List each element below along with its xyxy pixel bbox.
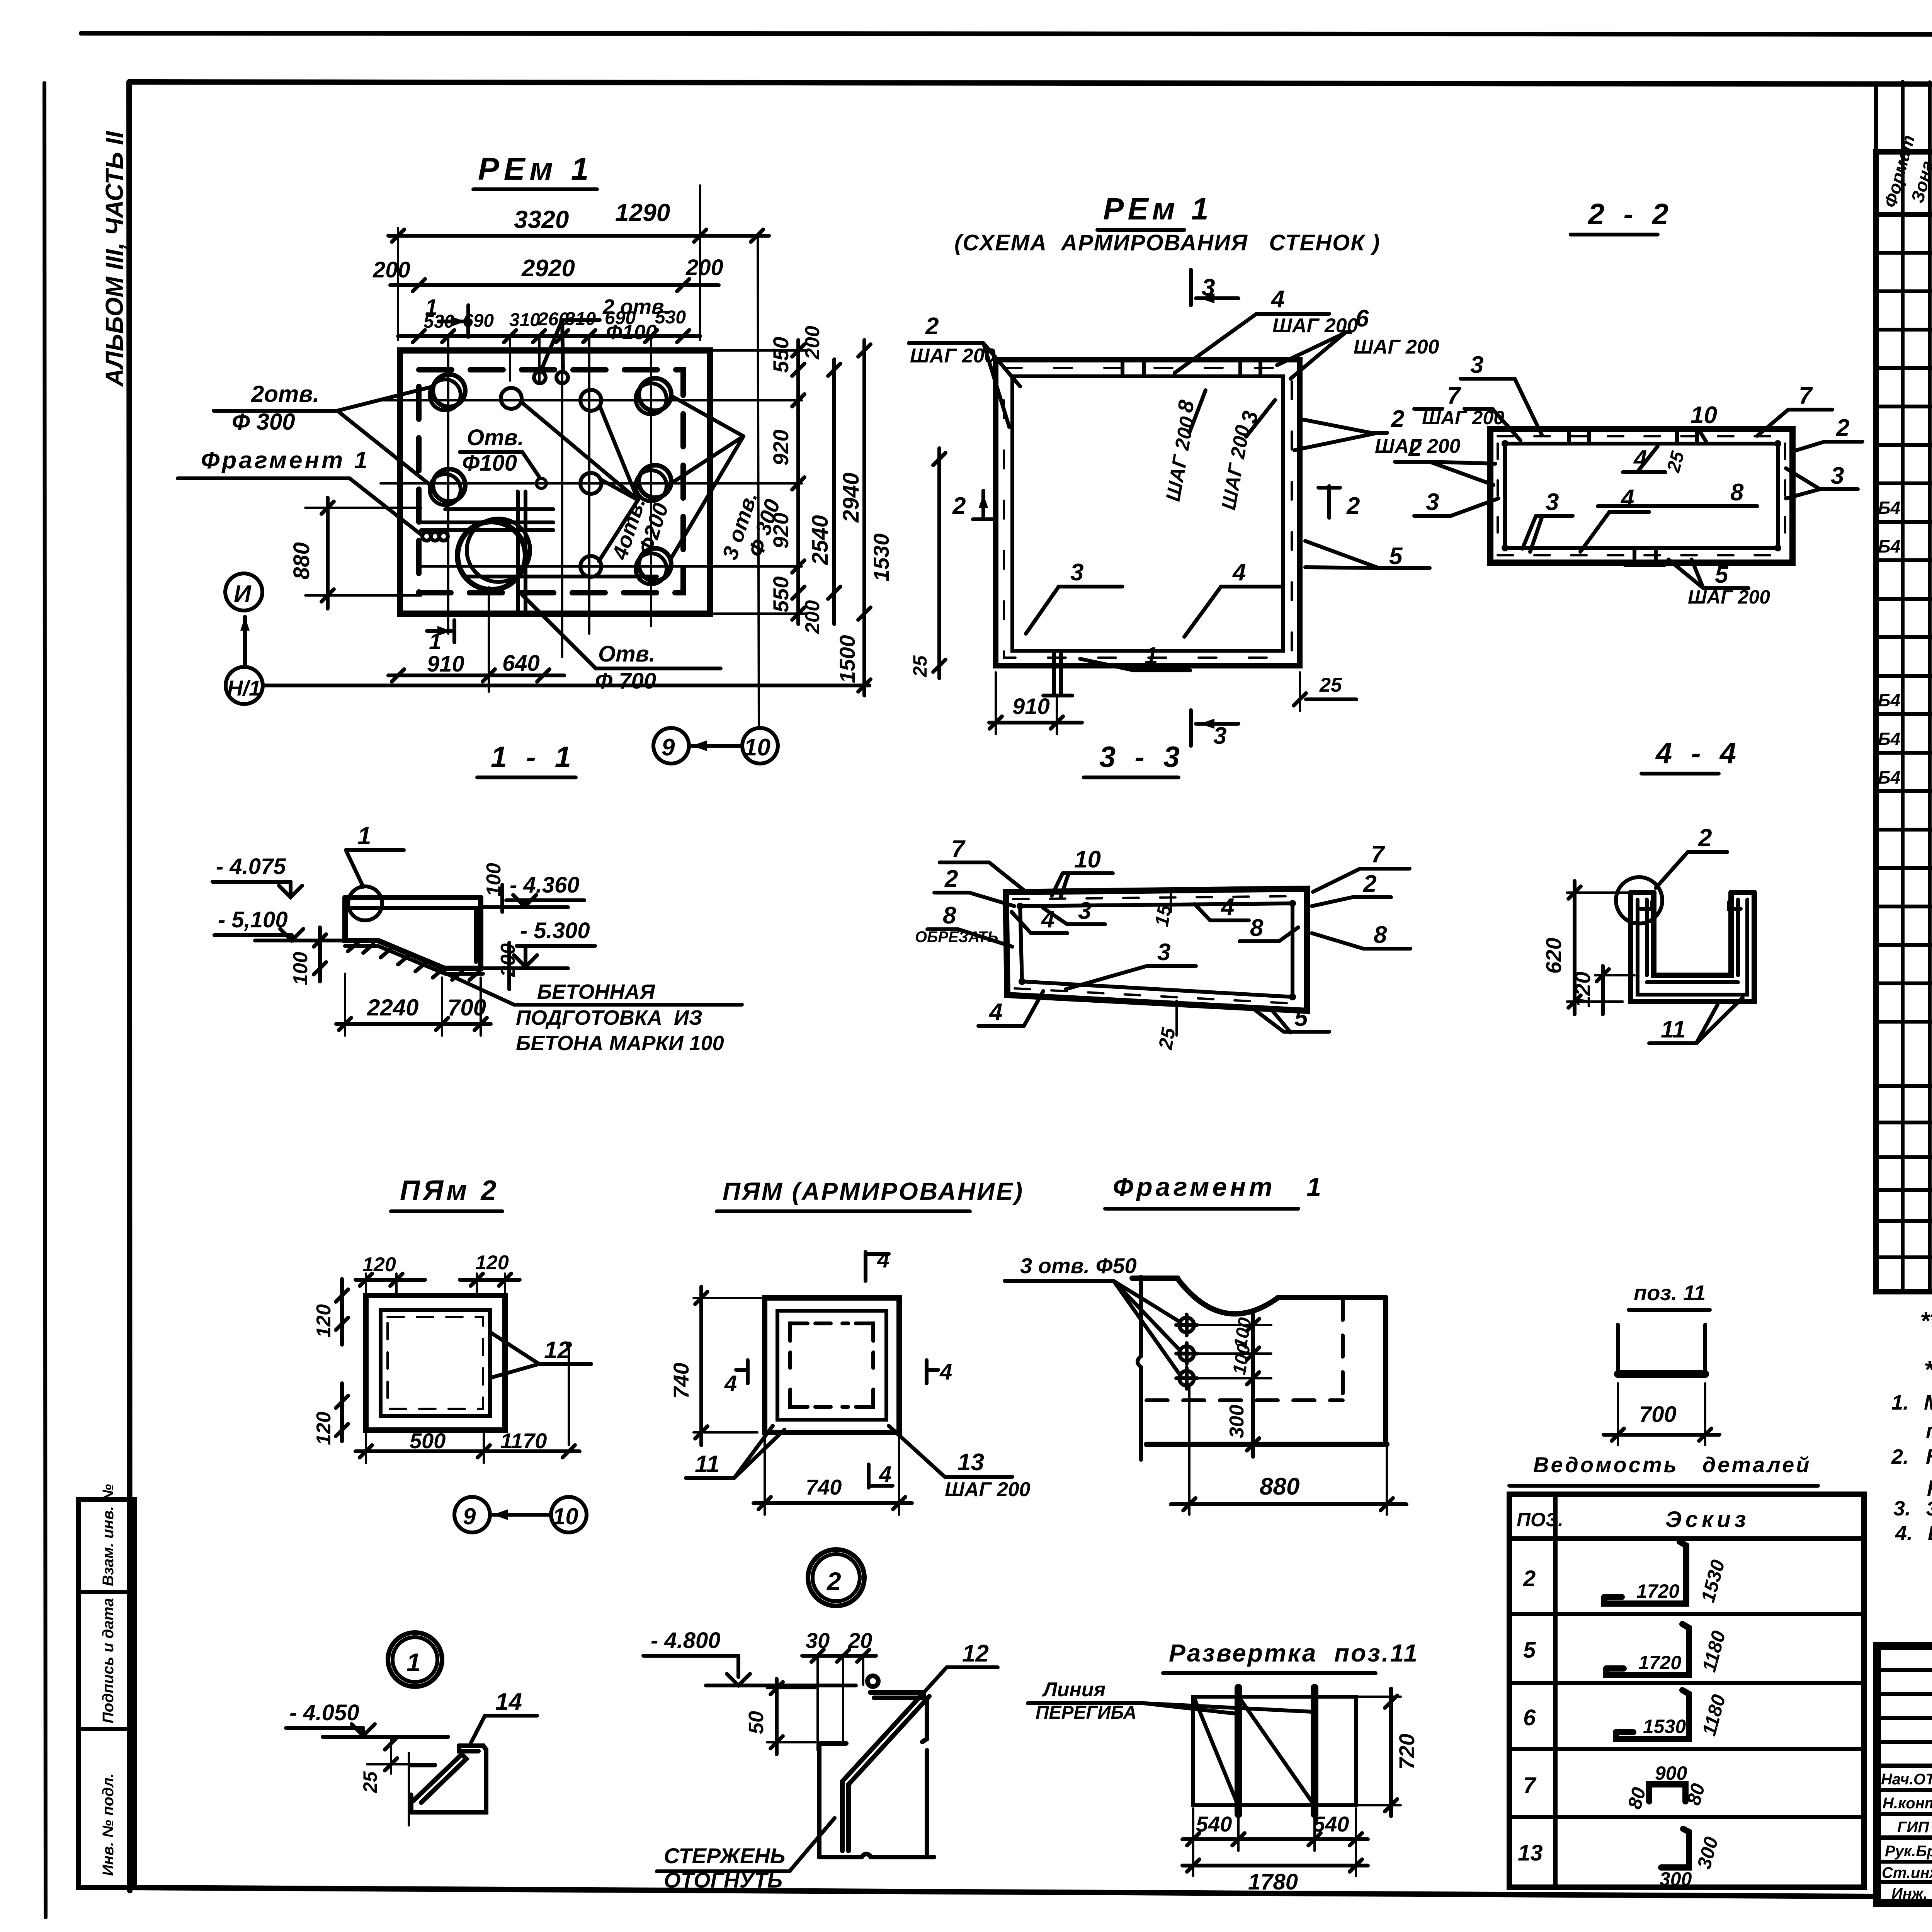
dim 1530 between plan and scheme	[869, 448, 946, 678]
title block texts	[1881, 1771, 1932, 1902]
svg-text:10: 10	[1690, 402, 1717, 429]
svg-text:- 5,100: - 5,100	[218, 907, 288, 932]
detail2 dim 50	[745, 1679, 815, 1754]
svg-text:2: 2	[925, 313, 939, 340]
svg-text:3: 3	[1078, 898, 1091, 924]
2-2 embeds	[1569, 429, 1665, 565]
armature square walls	[996, 360, 1300, 666]
svg-text:**: **	[1920, 1307, 1932, 1335]
svg-text:120: 120	[475, 1252, 509, 1274]
svg-text:200: 200	[372, 257, 410, 282]
section mark 3 top	[1191, 270, 1238, 305]
svg-text:1500: 1500	[835, 635, 859, 683]
svg-text:6: 6	[1523, 1705, 1536, 1730]
embed marks top wall	[1122, 362, 1260, 375]
dim 2540	[808, 359, 840, 624]
svg-text:Н.контр: Н.контр	[1883, 1795, 1932, 1812]
svg-text:25: 25	[359, 1771, 381, 1793]
svg-text:Подпись и дата: Подпись и дата	[100, 1598, 117, 1723]
PYam armir square	[765, 1298, 899, 1432]
svg-text:540: 540	[1313, 1812, 1349, 1836]
spec table grid	[1876, 82, 1932, 1292]
svg-text:5: 5	[1389, 543, 1403, 570]
Fragment1 drawing	[1132, 1278, 1387, 1444]
PYam armir dim 740 bottom	[753, 1435, 912, 1515]
svg-text:2: 2	[1836, 415, 1849, 441]
svg-text:10: 10	[1074, 846, 1101, 873]
svg-text:3.: 3.	[1893, 1497, 1911, 1520]
svg-text:3: 3	[1426, 489, 1439, 515]
svg-text:9: 9	[662, 734, 675, 761]
svg-text:2920: 2920	[521, 255, 575, 282]
svg-text:2: 2	[1391, 406, 1404, 432]
svg-text:- 5.300: - 5.300	[520, 918, 590, 943]
dim 880 left	[289, 498, 421, 609]
label fragment 1	[178, 447, 420, 534]
svg-text:Инв. № подл.: Инв. № подл.	[100, 1773, 117, 1876]
svg-text:4.: 4.	[1895, 1522, 1913, 1545]
label 3 shag200 inside rotated	[1218, 400, 1275, 512]
page outer top border	[81, 33, 1932, 35]
svg-text:2: 2	[944, 866, 958, 892]
svg-text:Эскиз: Эскиз	[1665, 1507, 1750, 1532]
PYam2 view marks 9 10	[454, 1497, 587, 1532]
svg-text:2отв.: 2отв.	[251, 381, 319, 407]
inner frame left	[129, 82, 130, 1891]
svg-text:300: 300	[1226, 1405, 1248, 1438]
svg-text:Рук.Бр: Рук.Бр	[1885, 1843, 1932, 1860]
svg-text:120: 120	[313, 1304, 335, 1338]
svg-text:ПОДГОТОВКА ИЗ: ПОДГОТОВКА ИЗ	[516, 1006, 702, 1029]
dim 1500 right bottom	[835, 624, 871, 696]
svg-text:4: 4	[724, 1371, 737, 1396]
label 8 shag200 inside rotated	[1162, 390, 1206, 503]
svg-text:2: 2	[1408, 435, 1422, 461]
svg-text:поз. 11: поз. 11	[1634, 1281, 1706, 1305]
svg-text:7: 7	[1799, 383, 1813, 409]
svg-text:3 отв. Ф50: 3 отв. Ф50	[1020, 1253, 1137, 1278]
svg-text:25: 25	[909, 655, 931, 677]
svg-text:30: 30	[806, 1628, 830, 1653]
svg-text:РЕм 1: РЕм 1	[478, 151, 593, 187]
label 3otv d300 rotated	[670, 396, 785, 563]
svg-text:10: 10	[744, 734, 770, 761]
svg-text:Б4: Б4	[1878, 536, 1900, 556]
svg-text:25: 25	[1155, 1026, 1180, 1051]
fragment dims 100 100 300	[1194, 1314, 1271, 1457]
hole row centerlines	[381, 400, 802, 566]
svg-text:Б4: Б4	[1878, 767, 1900, 787]
svg-text:7: 7	[951, 836, 966, 862]
svg-text:6: 6	[1355, 305, 1369, 332]
svg-text:8: 8	[943, 902, 956, 929]
svg-text:ГИП: ГИП	[1897, 1819, 1929, 1836]
svg-text:5: 5	[1715, 561, 1729, 588]
svg-text:13: 13	[957, 1449, 984, 1476]
svg-text:Н/1: Н/1	[227, 676, 261, 700]
svg-text:310: 310	[509, 310, 540, 330]
svg-text:2: 2	[1346, 493, 1360, 519]
svg-text:700: 700	[447, 995, 486, 1020]
concrete prep strip	[345, 943, 483, 980]
2-2 labels	[1461, 352, 1542, 435]
svg-text:1.: 1.	[1891, 1391, 1909, 1414]
4-4 dim 120	[1570, 966, 1634, 1014]
label 2otv d300	[214, 381, 434, 488]
svg-text:3: 3	[1546, 489, 1559, 515]
svg-text:СТЕРЖЕНЬ: СТЕРЖЕНЬ	[664, 1844, 785, 1868]
dim 25 bottom right of scheme	[1294, 672, 1356, 711]
level -4.360	[483, 872, 584, 907]
label otv d700	[522, 595, 721, 694]
big holes d300	[433, 374, 465, 407]
PYam armir label 13 shag200	[889, 1426, 1031, 1501]
svg-text:3 - 3: 3 - 3	[1099, 741, 1185, 774]
svg-text:11: 11	[1661, 1016, 1685, 1043]
svg-text:4: 4	[877, 1247, 889, 1272]
svg-text:14: 14	[495, 1689, 522, 1715]
svg-text:7: 7	[1523, 1773, 1537, 1798]
section mark 2 left	[952, 491, 994, 519]
label 5 right bottom	[1305, 541, 1430, 570]
svg-text:Нач.ОТЭП: Нач.ОТЭП	[1881, 1771, 1932, 1788]
detail1 dim 25	[359, 1737, 410, 1793]
svg-text:4: 4	[939, 1359, 952, 1384]
svg-text:(СХЕМА АРМИРОВАНИЯ СТЕНОК ): (СХЕМА АРМИРОВАНИЯ СТЕНОК )	[954, 230, 1380, 255]
detail2 label 12	[924, 1640, 998, 1692]
detail1 part	[411, 1746, 486, 1812]
detail1 label 14	[471, 1689, 537, 1743]
embed mark bottom center	[1043, 651, 1072, 696]
svg-text:100: 100	[483, 863, 505, 896]
PYam2 square	[366, 1296, 505, 1430]
svg-text:2: 2	[1363, 871, 1376, 897]
svg-text:13: 13	[1518, 1840, 1543, 1866]
svg-text:ПОЗ.: ПОЗ.	[1517, 1509, 1563, 1531]
svg-text:2: 2	[952, 493, 966, 519]
svg-text:Ст.инж.: Ст.инж.	[1882, 1864, 1932, 1881]
svg-text:4: 4	[1620, 485, 1634, 512]
razvertka dims	[1182, 1689, 1419, 1895]
svg-text:550: 550	[769, 337, 793, 373]
svg-text:25: 25	[1319, 674, 1342, 696]
svg-text:И: И	[234, 581, 252, 607]
svg-text:3: 3	[1070, 559, 1083, 586]
axis circle I	[225, 573, 262, 664]
dim 910 below scheme	[989, 672, 1082, 734]
svg-text:1290: 1290	[615, 199, 670, 226]
detail1 level -4.050	[286, 1700, 448, 1737]
svg-text:БЕТОННАЯ: БЕТОННАЯ	[537, 980, 656, 1003]
svg-text:4: 4	[1220, 894, 1234, 920]
svg-text:720: 720	[1395, 1734, 1419, 1770]
svg-text:200: 200	[801, 326, 824, 360]
svg-text:3: 3	[1213, 723, 1226, 749]
svg-text:Б4: Б4	[1878, 690, 1900, 710]
level -5,100	[214, 907, 344, 940]
svg-text:5: 5	[1294, 1005, 1308, 1031]
svg-text:200: 200	[497, 943, 519, 977]
svg-text:120: 120	[362, 1253, 396, 1276]
PYam armir section marks 4	[866, 1247, 889, 1281]
svg-text:Инж.: Инж.	[1891, 1885, 1928, 1902]
svg-text:Развертка поз.11: Развертка поз.11	[1169, 1639, 1419, 1667]
dim 100 right top	[483, 863, 505, 912]
4-4 rebar hooks	[1640, 902, 1652, 909]
detail1 extension	[408, 1753, 410, 1825]
svg-text:БЕТОНА МАРКИ 100: БЕТОНА МАРКИ 100	[516, 1032, 724, 1055]
dim 100 left	[289, 927, 326, 985]
svg-text:Отв.: Отв.	[598, 641, 655, 667]
Vedomost sketches	[1604, 1542, 1730, 1890]
svg-text:Монолитный резервуар РЕм 1 из: Монолитный резервуар РЕм 1 изготавливать…	[1924, 1391, 1932, 1414]
svg-text:200: 200	[685, 255, 723, 280]
4-4 label 11	[1649, 998, 1743, 1043]
inner frame bottom	[130, 1888, 1877, 1896]
svg-text:ПЯм 2: ПЯм 2	[400, 1175, 500, 1206]
svg-text:Отв.: Отв.	[467, 425, 524, 450]
svg-text:920: 920	[769, 430, 793, 466]
view marks 9 10	[653, 238, 778, 764]
label 3 bottom inside	[1026, 559, 1122, 634]
detail circle 1 bottom	[388, 1633, 442, 1687]
svg-text:ПЯМ (АРМИРОВАНИЕ): ПЯМ (АРМИРОВАНИЕ)	[723, 1177, 1024, 1205]
section mark 2 right	[1318, 486, 1360, 519]
detail2 part	[819, 1676, 934, 1857]
svg-text:620: 620	[1541, 938, 1566, 974]
svg-text:880: 880	[1260, 1473, 1299, 1500]
label 6 shag200 top right	[1277, 305, 1439, 379]
label otv d100	[460, 425, 540, 478]
svg-text:На стенки монолитного резерву: На стенки монолитного резервуара наносит…	[1926, 1445, 1932, 1468]
inner frame top	[129, 82, 1932, 85]
svg-text:2240: 2240	[367, 995, 418, 1020]
svg-text:1170: 1170	[500, 1429, 547, 1453]
svg-text:1530: 1530	[869, 533, 893, 582]
svg-text:1780: 1780	[1248, 1869, 1298, 1895]
dim 910 640 bottom	[388, 587, 564, 692]
svg-text:2940: 2940	[838, 473, 864, 523]
dim 2940	[838, 340, 871, 624]
title block grid	[1877, 1646, 1932, 1903]
svg-text:740: 740	[806, 1475, 842, 1499]
svg-text:- 4.800: - 4.800	[651, 1628, 721, 1653]
svg-text:1: 1	[357, 822, 371, 850]
notes block	[1891, 1307, 1932, 1545]
fragment circles	[1176, 1315, 1197, 1389]
fragment dim 880	[1171, 1387, 1406, 1515]
svg-text:540: 540	[1196, 1812, 1232, 1836]
svg-text:120: 120	[313, 1412, 335, 1445]
svg-text:900: 900	[1655, 1762, 1687, 1784]
svg-text:ШАГ 200: ШАГ 200	[1354, 336, 1439, 358]
svg-text:2540: 2540	[808, 515, 833, 565]
svg-text:120: 120	[1570, 972, 1595, 1008]
svg-text:Ведомость расхода стали см. л: Ведомость расхода стали см. лист 42	[1928, 1522, 1932, 1545]
svg-text:Ф100: Ф100	[462, 451, 517, 476]
svg-text:раствора толщиной 25мм с пос: раствора толщиной 25мм с последующим жел…	[1927, 1473, 1932, 1496]
svg-text:50: 50	[745, 1711, 768, 1734]
svg-text:ШАГ 200: ШАГ 200	[945, 1478, 1031, 1501]
svg-text:1: 1	[1145, 643, 1158, 669]
svg-text:7: 7	[1447, 383, 1461, 409]
section 1-1 slab outline	[345, 898, 481, 968]
svg-text:300: 300	[1660, 1868, 1692, 1890]
poz11 sketch	[1604, 1281, 1719, 1445]
section 2-2 walls	[1490, 429, 1793, 563]
axis circle N/1	[226, 667, 869, 704]
4-4 dim 620	[1541, 881, 1634, 1014]
svg-text:550: 550	[769, 577, 793, 612]
svg-text:10: 10	[553, 1503, 578, 1529]
svg-text:Ф100: Ф100	[606, 321, 657, 344]
svg-text:8: 8	[1374, 922, 1387, 948]
column extension lines	[448, 338, 651, 657]
svg-text:100: 100	[289, 952, 312, 985]
svg-text:2.: 2.	[1891, 1445, 1909, 1468]
svg-text:4: 4	[988, 999, 1002, 1026]
svg-text:3: 3	[1157, 939, 1170, 966]
svg-text:910: 910	[427, 651, 464, 677]
label 1 bottom	[1080, 643, 1190, 670]
liniya peregiba	[1028, 1679, 1312, 1723]
PYam2 label 12	[492, 1333, 591, 1445]
dim 200 right	[497, 943, 519, 989]
svg-text:500: 500	[410, 1429, 446, 1453]
svg-text:11: 11	[695, 1451, 719, 1478]
svg-text:- 4.360: - 4.360	[510, 872, 580, 898]
svg-text:Защитный слой бетона до рабоче: Защитный слой бетона до рабочей арматуры…	[1926, 1498, 1932, 1520]
svg-text:3: 3	[1831, 463, 1844, 489]
svg-text:*: *	[1924, 1355, 1932, 1383]
section mark 1 top	[425, 295, 468, 337]
svg-text:АЛЬБОМ III, ЧАСТЬ II: АЛЬБОМ III, ЧАСТЬ II	[100, 131, 128, 387]
spec rows text	[1878, 222, 1932, 1253]
svg-text:2: 2	[826, 1567, 841, 1595]
label 4 shag200 top	[1175, 286, 1358, 373]
svg-text:1530: 1530	[1643, 1716, 1686, 1737]
svg-text:Ф 300: Ф 300	[232, 409, 295, 435]
svg-text:4 - 4: 4 - 4	[1655, 737, 1742, 770]
svg-text:2: 2	[1698, 824, 1712, 852]
page outer left border	[44, 83, 46, 1917]
hole d100 center	[536, 478, 546, 488]
fragment three small holes	[422, 532, 431, 541]
label 2otv d100 top	[541, 295, 670, 372]
svg-text:12: 12	[962, 1640, 989, 1667]
svg-text:15: 15	[1151, 903, 1176, 928]
svg-text:700: 700	[1639, 1402, 1677, 1427]
Razvertka drawing	[1193, 1688, 1356, 1814]
detail2 sterzhen label	[657, 1818, 835, 1892]
svg-text:1720: 1720	[1638, 1652, 1681, 1673]
svg-text:Б4: Б4	[1878, 498, 1900, 518]
svg-text:4: 4	[1270, 286, 1284, 313]
svg-text:2 - 2: 2 - 2	[1587, 198, 1674, 231]
svg-text:3320: 3320	[514, 206, 569, 233]
dim 2240 700	[336, 974, 491, 1036]
svg-text:Фрагмент 1: Фрагмент 1	[201, 447, 370, 474]
svg-text:9: 9	[463, 1503, 476, 1529]
svg-text:3: 3	[1470, 352, 1483, 378]
level -5.300	[483, 918, 595, 968]
svg-text:640: 640	[502, 651, 540, 676]
left stamp box	[78, 1484, 134, 1888]
spec table headers	[1880, 133, 1932, 210]
2-2 top wall embed marks	[1677, 429, 1697, 444]
svg-text:1: 1	[406, 1648, 421, 1677]
label 4 bottom inside	[1184, 559, 1283, 637]
svg-text:Ф 700: Ф 700	[595, 668, 656, 694]
PYam armir dim 740 left	[669, 1287, 769, 1445]
svg-text:2 отв.: 2 отв.	[602, 295, 670, 318]
svg-text:- 4.050: - 4.050	[289, 1700, 359, 1725]
PYam2 dims 120 top	[355, 1252, 520, 1293]
label 2 shag200 right	[1294, 406, 1461, 457]
svg-text:ШАГ 200: ШАГ 200	[910, 345, 996, 367]
detail circle 2 bottom	[808, 1549, 864, 1606]
svg-text:8: 8	[1250, 915, 1264, 941]
detail2 level -4.800	[643, 1628, 856, 1685]
dim 3320/1290 line	[388, 185, 769, 340]
PYam armir label 11	[686, 1426, 784, 1478]
svg-text:Линия: Линия	[1042, 1679, 1105, 1701]
concrete prep note	[516, 980, 724, 1055]
detail circle 1	[348, 886, 382, 920]
fragment label 3otv	[1005, 1253, 1180, 1376]
section 4-4 U walls	[1631, 893, 1754, 1002]
svg-text:1 - 1: 1 - 1	[491, 741, 577, 774]
svg-text:Б4: Б4	[1878, 729, 1900, 749]
mesh corner hooks	[790, 1323, 873, 1407]
two holes d100 top	[534, 372, 546, 383]
svg-text:ПЕРЕГИБА: ПЕРЕГИБА	[1036, 1702, 1136, 1723]
svg-text:200: 200	[801, 600, 824, 634]
svg-text:Фрагмент 1: Фрагмент 1	[1113, 1172, 1324, 1202]
svg-text:- 4.075: - 4.075	[216, 854, 286, 879]
dim 200/2920/200 line	[372, 255, 723, 291]
label 2 shag200 left top	[909, 313, 1020, 427]
PYam2 dim 500 1170	[355, 1429, 580, 1463]
plan outer slab square	[400, 350, 710, 614]
svg-text:4: 4	[1232, 559, 1246, 586]
PYam2 dims 120 left	[313, 1279, 348, 1445]
4-4 detail circle 2	[1616, 877, 1662, 923]
section 3-3 outline	[1006, 889, 1307, 1011]
svg-text:7: 7	[1371, 841, 1385, 868]
detail2 dims 30 20	[802, 1628, 876, 1750]
svg-text:5: 5	[1523, 1638, 1536, 1663]
3-3 labels	[940, 836, 1028, 893]
right dim stack 200/550/920/920/550/200	[711, 326, 824, 634]
svg-text:4: 4	[879, 1462, 891, 1487]
svg-text:12: 12	[544, 1337, 571, 1364]
big hole d700	[457, 522, 526, 590]
section mark 3 bottom	[1191, 710, 1238, 749]
Vedomost table	[1509, 1494, 1864, 1887]
svg-text:740: 740	[669, 1363, 693, 1399]
svg-text:Ведомость деталей: Ведомость деталей	[1533, 1452, 1811, 1477]
svg-text:910: 910	[1012, 694, 1050, 719]
svg-text:880: 880	[289, 542, 314, 580]
fragment pipes lines	[421, 492, 657, 611]
svg-text:8: 8	[1730, 479, 1744, 506]
svg-text:РЕм 1: РЕм 1	[1103, 192, 1213, 226]
plan inner dashed wall square	[419, 370, 683, 593]
section mark 1 bottom	[427, 620, 454, 654]
svg-text:920: 920	[769, 513, 793, 549]
svg-text:1720: 1720	[1636, 1580, 1679, 1602]
